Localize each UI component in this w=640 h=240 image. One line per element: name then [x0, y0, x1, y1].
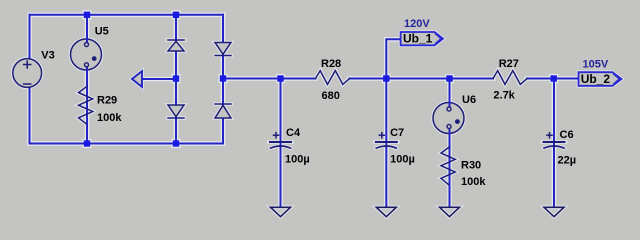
- diode D4 right-bottom (cathode up): [215, 104, 231, 118]
- wire mid rail segment 2: [350, 78, 494, 80]
- svg-text:2.7k: 2.7k: [493, 90, 515, 102]
- svg-text:105V: 105V: [583, 58, 609, 70]
- arrow connector (left-pointing): [132, 71, 142, 87]
- svg-text:C6: C6: [560, 129, 574, 141]
- svg-text:R28: R28: [321, 58, 341, 70]
- svg-text:Ub_1: Ub_1: [403, 32, 433, 46]
- svg-text:V3: V3: [41, 50, 54, 62]
- lamp U5: [71, 39, 102, 70]
- ground (C6): [544, 207, 564, 216]
- wire C7 branch: [385, 79, 387, 208]
- wire left side with V3: [29, 15, 31, 144]
- junction top rail / U5: [84, 12, 90, 18]
- junction C4: [277, 75, 283, 81]
- wire bottom rail: [30, 143, 224, 145]
- svg-text:U6: U6: [462, 94, 476, 106]
- node Ub_2 tag: [579, 72, 622, 86]
- diode D3 right-top (cathode down): [215, 43, 231, 56]
- junction top rail / left diode branch: [173, 12, 179, 18]
- svg-text:100k: 100k: [97, 112, 122, 124]
- wire left diode branch: [175, 15, 177, 144]
- wire U6/R30 branch: [449, 79, 451, 208]
- capacitor C6: [543, 133, 566, 148]
- ground (R30): [440, 207, 460, 216]
- svg-text:120V: 120V: [404, 18, 430, 30]
- resistor R30: [441, 147, 455, 185]
- resistor R28: [316, 71, 350, 85]
- wire Ub_1 stub: [386, 39, 400, 78]
- svg-text:R30: R30: [461, 160, 481, 172]
- junction left branch mid: [173, 75, 179, 81]
- halo layer (jpeg-like glow): [30, 15, 579, 207]
- voltage source V3: [13, 59, 42, 88]
- resistor R29: [79, 86, 93, 124]
- svg-text:Ub_2: Ub_2: [581, 72, 611, 86]
- junction C7 / Ub_1: [383, 75, 389, 81]
- wire mid rail segment 3: [527, 78, 579, 80]
- svg-text:100µ: 100µ: [390, 154, 415, 166]
- diode D2 left-bottom (cathode down): [168, 105, 184, 118]
- wire right side of loop: [222, 15, 224, 144]
- svg-text:R29: R29: [97, 94, 117, 106]
- diode D1 left-top (cathode up): [168, 40, 184, 51]
- svg-text:100k: 100k: [461, 176, 486, 188]
- wire U5/R29 column: [86, 15, 88, 144]
- ground (C7): [376, 207, 396, 216]
- svg-text:22µ: 22µ: [558, 155, 577, 167]
- wire C6 branch: [553, 79, 555, 208]
- svg-text:R27: R27: [499, 58, 519, 70]
- svg-text:680: 680: [322, 90, 340, 102]
- junction C6 / Ub_2: [551, 75, 557, 81]
- ground (C4): [271, 207, 291, 216]
- junction U6: [446, 75, 452, 81]
- wire C4 branch: [280, 79, 282, 208]
- svg-text:U5: U5: [95, 26, 109, 38]
- svg-text:100µ: 100µ: [285, 154, 310, 166]
- junction bottom rail / left diode branch: [173, 140, 179, 146]
- lamp U6: [433, 103, 464, 134]
- wire top rail: [30, 14, 224, 16]
- node Ub_1 tag: [401, 32, 443, 45]
- svg-text:C7: C7: [390, 127, 404, 139]
- wire arrow to left branch: [142, 78, 176, 80]
- junction bottom rail / R29: [84, 140, 90, 146]
- junction right branch mid: [220, 75, 226, 81]
- wire mid rail segment 1: [223, 78, 316, 80]
- capacitor C4: [269, 133, 292, 148]
- capacitor C7: [375, 133, 398, 148]
- svg-text:C4: C4: [286, 127, 301, 139]
- resistor R27: [493, 71, 527, 85]
